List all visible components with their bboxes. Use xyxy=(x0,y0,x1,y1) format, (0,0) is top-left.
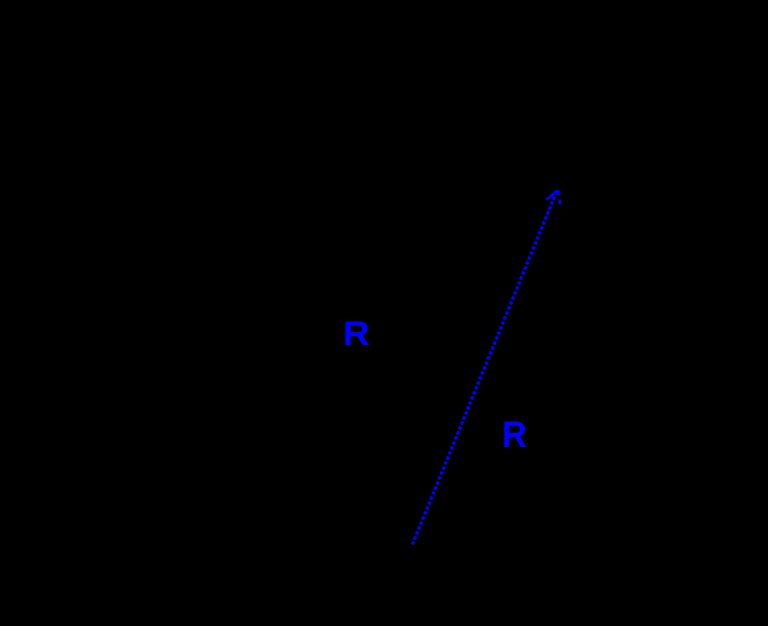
svg-text:R: R xyxy=(502,414,527,455)
arrowhead right barb of vector R (dotted) xyxy=(558,191,560,205)
arrowhead left barb of vector R xyxy=(546,190,557,199)
resultant vector R (blue dotted line shaft) xyxy=(412,193,556,544)
svg-text:R: R xyxy=(343,314,370,352)
